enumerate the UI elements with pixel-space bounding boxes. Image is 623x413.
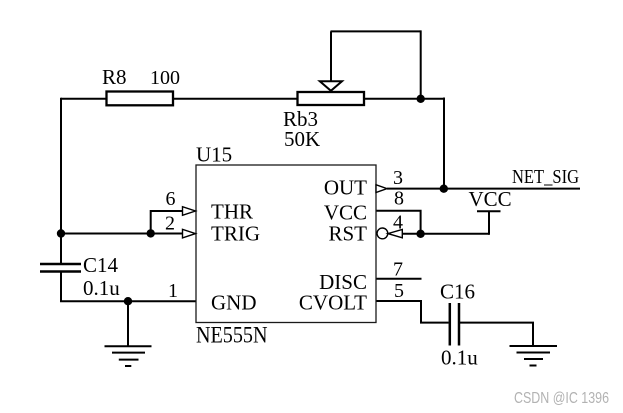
ground right xyxy=(510,346,558,366)
svg-text:NE555N: NE555N xyxy=(196,323,268,348)
wire feedback right vertical xyxy=(420,30,422,98)
wire left top horizontal to R8 xyxy=(61,98,107,100)
pin arrow TRIG xyxy=(183,229,196,238)
svg-text:2: 2 xyxy=(165,213,175,235)
wire left vertical rail xyxy=(60,98,62,264)
wire TRIG horizontal xyxy=(60,233,183,235)
wire ground stem left xyxy=(127,301,129,346)
svg-text:0.1u: 0.1u xyxy=(441,346,478,370)
junction node feedback / Rb3 out xyxy=(417,95,425,103)
wire GND horizontal to pin 1 xyxy=(60,300,196,302)
capacitor C14 xyxy=(40,253,120,300)
junction node ground left xyxy=(124,297,132,305)
junction node pin 8 / pin 4 xyxy=(416,230,424,238)
svg-text:RST: RST xyxy=(328,222,367,246)
svg-text:3: 3 xyxy=(393,167,403,189)
svg-text:GND: GND xyxy=(211,291,257,315)
wire Rb3 right to corner xyxy=(364,98,444,100)
svg-text:NET_SIG: NET_SIG xyxy=(512,166,579,188)
pin arrow RST xyxy=(388,229,402,237)
wire THR branch xyxy=(151,211,183,235)
junction node THR branch xyxy=(147,229,155,237)
wire C16 right to ground xyxy=(459,323,533,346)
potentiometer Rb3 xyxy=(283,81,364,151)
svg-text:1: 1 xyxy=(168,280,178,302)
svg-text:R8: R8 xyxy=(102,65,127,89)
wire pin 4 RST net xyxy=(402,233,489,235)
wire R8 to Rb3 xyxy=(172,98,298,100)
wire pin 5 CVOLT to C16 xyxy=(376,301,449,323)
wire VCC symbol stem xyxy=(488,211,490,235)
svg-text:8: 8 xyxy=(394,188,404,210)
svg-text:CSDN @IC 1396: CSDN @IC 1396 xyxy=(514,390,609,407)
svg-text:VCC: VCC xyxy=(469,187,512,211)
svg-text:50K: 50K xyxy=(284,127,320,151)
svg-text:6: 6 xyxy=(166,188,176,210)
svg-text:7: 7 xyxy=(393,259,403,281)
svg-text:CVOLT: CVOLT xyxy=(299,291,367,315)
pin arrow THR xyxy=(183,207,196,216)
svg-text:THR: THR xyxy=(211,199,253,223)
pin bubble RST xyxy=(377,228,388,239)
svg-text:OUT: OUT xyxy=(324,176,367,200)
svg-text:U15: U15 xyxy=(196,143,232,167)
svg-text:0.1u: 0.1u xyxy=(83,276,120,300)
svg-text:C16: C16 xyxy=(440,280,475,304)
IC U15 NE555N xyxy=(196,143,376,348)
VCC power symbol xyxy=(469,187,512,211)
wire feedback top horizontal xyxy=(331,30,421,32)
ground left xyxy=(105,346,152,366)
wire pin 7 DISC stub xyxy=(376,278,422,280)
svg-text:5: 5 xyxy=(394,280,404,302)
pin arrow OUT xyxy=(376,185,387,193)
svg-text:TRIG: TRIG xyxy=(211,222,260,246)
wire wiper vertical xyxy=(330,31,332,81)
wire corner down to OUT net xyxy=(443,98,445,189)
svg-text:C14: C14 xyxy=(83,253,119,277)
wire OUT to NET_SIG xyxy=(387,188,580,190)
wire pin 8 VCC xyxy=(376,211,421,234)
wire C14 bottom lead xyxy=(60,272,62,302)
junction node OUT net xyxy=(440,185,448,193)
junction node left rail / TRIG xyxy=(57,229,65,237)
resistor R8 xyxy=(102,65,180,105)
svg-text:100: 100 xyxy=(150,67,180,89)
capacitor C16 xyxy=(440,280,478,370)
